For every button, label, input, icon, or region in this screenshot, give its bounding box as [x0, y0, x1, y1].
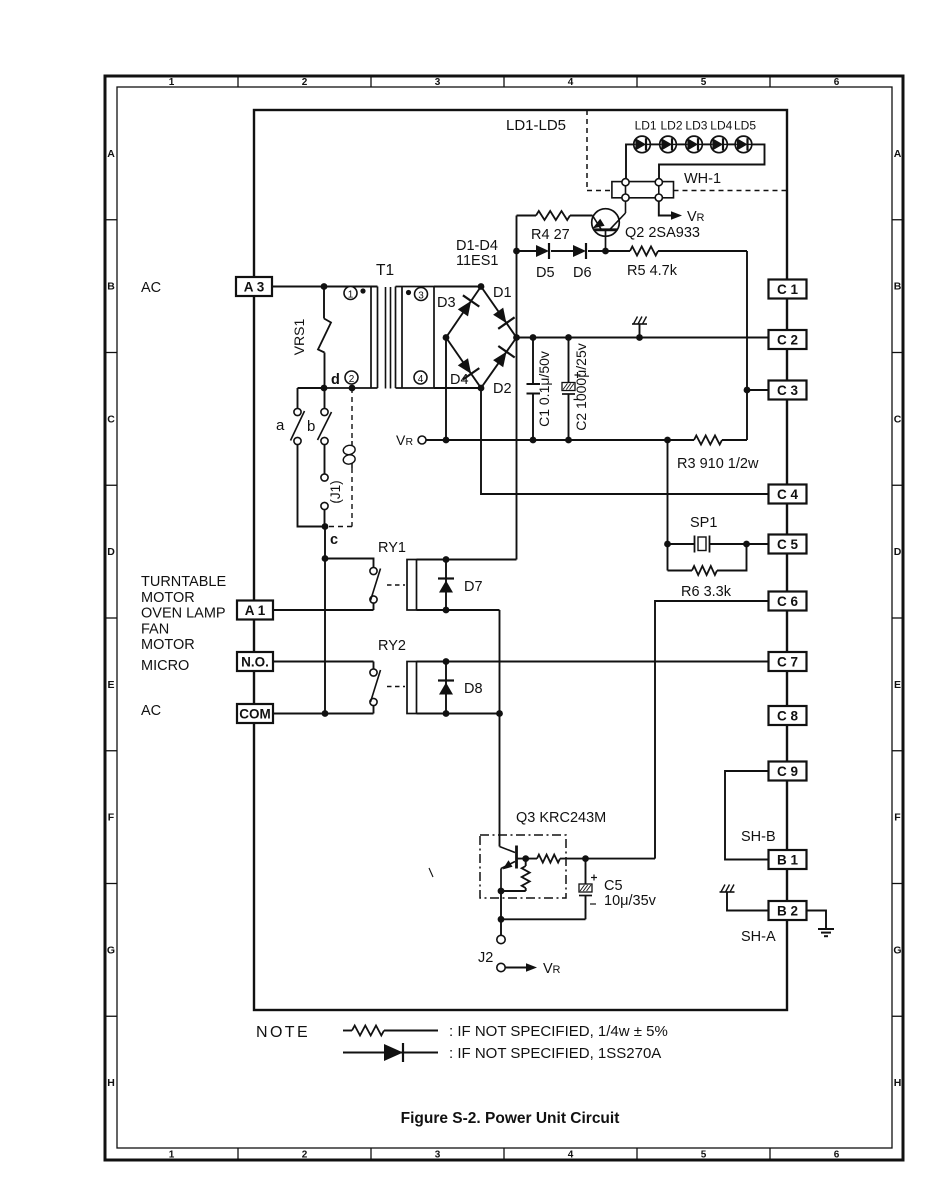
connector WH-1	[612, 179, 674, 202]
svg-text:R: R	[406, 436, 414, 448]
wire SP1 rail	[668, 543, 769, 545]
diode D3	[458, 295, 480, 316]
wire bridge right node up to R4	[516, 216, 518, 338]
wire R5 to C3 vertical	[746, 251, 748, 440]
svg-text:V: V	[687, 209, 697, 225]
node D7 bottom	[443, 607, 450, 614]
svg-text:1: 1	[169, 1150, 175, 1161]
svg-text:D1: D1	[493, 285, 512, 301]
svg-text:OVEN LAMP: OVEN LAMP	[141, 606, 226, 622]
diode D1	[493, 308, 514, 329]
capacitor C2 (electrolytic)	[562, 338, 581, 441]
svg-text:RY2: RY2	[378, 638, 406, 654]
node bridge left	[443, 334, 450, 341]
node C1 top	[530, 334, 537, 341]
svg-text:3: 3	[418, 291, 424, 302]
wire bridge left node down to VR rail	[445, 338, 447, 441]
connector C3	[769, 381, 807, 400]
svg-text:: IF NOT SPECIFIED, 1SS270A: : IF NOT SPECIFIED, 1SS270A	[449, 1045, 661, 1062]
ground (chassis) on DC rail	[632, 317, 647, 338]
node C5 top	[582, 855, 589, 862]
node RY1 branch	[322, 555, 329, 562]
svg-text:V: V	[396, 432, 406, 448]
svg-text:NOTE: NOTE	[256, 1024, 310, 1041]
svg-text:D5: D5	[536, 265, 555, 281]
diode D8	[438, 662, 454, 714]
label D1-D4 11ES1	[456, 238, 498, 269]
wire Q3 base with internal resistor	[518, 855, 656, 863]
stray scan mark	[429, 868, 433, 877]
relay RY1 contact	[370, 567, 405, 603]
node C2 top	[565, 334, 572, 341]
resonator SP1	[695, 536, 710, 553]
wire c down to COM rail	[324, 527, 326, 714]
wire switch a leg to node c	[298, 445, 326, 527]
node D8 bottom	[443, 710, 450, 717]
diode D6	[573, 243, 586, 259]
svg-text:B 2: B 2	[777, 904, 798, 919]
node D7 top	[443, 556, 450, 563]
terminal VR (circle)	[396, 432, 426, 448]
connector B1	[769, 850, 807, 869]
svg-text:C 3: C 3	[777, 383, 799, 398]
node ground stem	[636, 334, 643, 341]
node C1 bottom	[530, 437, 537, 444]
svg-text:SH-B: SH-B	[741, 829, 776, 845]
svg-text:5: 5	[701, 1150, 707, 1161]
svg-text:F: F	[108, 812, 115, 824]
legend diode symbol	[343, 1043, 438, 1062]
svg-text:RY1: RY1	[378, 540, 406, 556]
diode D7	[438, 560, 454, 611]
svg-text:6: 6	[834, 1150, 840, 1161]
svg-text:C 9: C 9	[777, 764, 798, 779]
svg-text:c: c	[330, 532, 338, 548]
connector C5	[769, 535, 807, 554]
wire DC+ rail to C2 connector	[517, 337, 769, 339]
connector B2	[769, 901, 807, 920]
svg-text:C: C	[107, 413, 115, 425]
svg-text:A 3: A 3	[244, 280, 265, 295]
svg-text:2: 2	[349, 374, 355, 385]
svg-text:AC: AC	[141, 703, 161, 719]
wire B2 to earth ground	[807, 911, 827, 930]
connector C2	[769, 330, 807, 349]
svg-text:R5 4.7k: R5 4.7k	[627, 263, 678, 279]
relay RY2 coil	[407, 662, 769, 714]
wire RY1 coil to Q3 collector	[499, 610, 501, 714]
resistor R4	[536, 211, 570, 220]
node Q3 base resistor junction	[522, 855, 529, 862]
switch a	[291, 388, 305, 445]
svg-text:2: 2	[302, 77, 308, 88]
connector A1	[237, 601, 273, 620]
label TURNTABLE MOTOR OVEN LAMP FAN MOTOR	[141, 574, 226, 653]
svg-text:D3: D3	[437, 295, 456, 311]
svg-text:A: A	[894, 148, 902, 160]
svg-text:MOTOR: MOTOR	[141, 590, 195, 606]
svg-text:d: d	[331, 372, 340, 388]
resistor R6 loop	[668, 544, 747, 575]
svg-text:B 1: B 1	[777, 853, 799, 868]
svg-text:TURNTABLE: TURNTABLE	[141, 574, 226, 590]
svg-text:MOTOR: MOTOR	[141, 637, 195, 653]
svg-text:D6: D6	[573, 265, 592, 281]
svg-text:b: b	[307, 418, 315, 435]
svg-text:(J1): (J1)	[328, 480, 343, 503]
wire Q3 collector	[500, 714, 516, 853]
diode D5	[536, 243, 549, 259]
node Q2 lead junction	[602, 248, 609, 255]
LED LD5	[727, 136, 752, 153]
node C3 junction	[744, 387, 751, 394]
wire A3 to T1	[272, 286, 378, 288]
capacitor C1	[527, 338, 541, 441]
svg-text:J2: J2	[478, 950, 493, 966]
T1 pin 4 marker	[414, 371, 427, 385]
svg-text:MICRO: MICRO	[141, 658, 189, 674]
svg-text:R6 3.3k: R6 3.3k	[681, 584, 732, 600]
connector N.O.	[237, 652, 273, 671]
resistor R5	[630, 247, 658, 256]
svg-text:C 5: C 5	[777, 537, 799, 552]
svg-text:E: E	[894, 679, 901, 691]
svg-text:WH-1: WH-1	[684, 171, 721, 187]
wire Q3 emitter rail	[501, 890, 526, 892]
wire C6 to Q3 base	[655, 601, 769, 859]
wire RY1 contact feed	[325, 559, 374, 568]
svg-text:A: A	[107, 148, 115, 160]
svg-text:COM: COM	[239, 707, 271, 722]
wire C5 bottom rail	[501, 918, 586, 920]
svg-text:VRS1: VRS1	[291, 319, 307, 356]
LED LD1	[634, 136, 651, 153]
svg-text:D: D	[894, 546, 902, 558]
transformer T1 core	[386, 287, 391, 389]
wire bridge bottom to C4 rail	[481, 388, 769, 494]
svg-text:B: B	[894, 281, 902, 293]
svg-text:C 6: C 6	[777, 594, 799, 609]
svg-text:D1-D4: D1-D4	[456, 238, 498, 254]
svg-text:FAN: FAN	[141, 621, 169, 637]
svg-text:LD4: LD4	[710, 119, 732, 133]
svg-text:A 1: A 1	[245, 603, 266, 618]
svg-text:LD1-LD5: LD1-LD5	[506, 117, 566, 134]
connector C8	[769, 706, 807, 725]
capacitor C5 (electrolytic)	[579, 859, 597, 920]
relay RY2 contact	[370, 662, 405, 706]
svg-text:G: G	[893, 944, 901, 956]
node J1 dashed tap	[349, 385, 356, 392]
connector C1	[769, 280, 807, 299]
svg-text:SP1: SP1	[690, 515, 717, 531]
node C2 bottom	[565, 437, 572, 444]
svg-text:5: 5	[701, 77, 707, 88]
connector C4	[769, 485, 807, 504]
svg-text:D8: D8	[464, 681, 483, 697]
wire R4 rail	[517, 215, 593, 217]
svg-text:1: 1	[348, 290, 354, 301]
label VR (top)	[687, 209, 705, 225]
wire C9 to B1 (SH-B loop)	[725, 771, 769, 860]
svg-text:: IF NOT SPECIFIED, 1/4w ± 5%: : IF NOT SPECIFIED, 1/4w ± 5%	[449, 1023, 668, 1040]
diode D2	[493, 346, 515, 367]
node COM / c junction	[322, 710, 329, 717]
connector COM	[237, 704, 273, 723]
svg-text:D2: D2	[493, 381, 512, 397]
svg-text:G: G	[107, 944, 115, 956]
svg-text:SH-A: SH-A	[741, 929, 776, 945]
svg-text:LD5: LD5	[734, 119, 756, 133]
transistor Q2 (2SA933 PNP)	[592, 201, 626, 251]
ground (earth) right of B2	[818, 928, 834, 930]
wire N.O. rail	[273, 661, 374, 663]
resistor R3	[694, 436, 722, 445]
relay RY1 coil	[407, 560, 517, 611]
svg-text:AC: AC	[141, 280, 161, 296]
wire RY1 contact to A1 rail	[373, 603, 375, 610]
inductor J1 coil	[342, 441, 356, 468]
svg-text:3: 3	[435, 1150, 441, 1161]
svg-text:D4: D4	[450, 372, 469, 388]
svg-text:N.O.: N.O.	[241, 655, 269, 670]
svg-text:H: H	[107, 1077, 115, 1089]
svg-text:6: 6	[834, 77, 840, 88]
wire R3 branch down to SP1/R6	[667, 440, 669, 571]
wire T1 bottom rail to switches	[298, 387, 325, 389]
node VR rail / bridge left	[443, 437, 450, 444]
node SP1 left	[664, 541, 671, 548]
node c junction	[322, 523, 329, 530]
arrow J2 to VR	[506, 963, 538, 972]
node VRS1 top junction	[321, 283, 328, 290]
svg-text:C 1: C 1	[777, 282, 799, 297]
svg-text:C1 0.1μ/50v: C1 0.1μ/50v	[536, 351, 552, 427]
svg-text:10μ/35v: 10μ/35v	[604, 893, 657, 909]
svg-text:H: H	[894, 1077, 902, 1089]
svg-text:4: 4	[568, 1150, 574, 1161]
transformer T1 primary winding	[324, 287, 378, 389]
node R4/D5 junction	[513, 248, 520, 255]
svg-text:T1: T1	[376, 262, 394, 279]
svg-text:3: 3	[435, 77, 441, 88]
svg-text:C 2: C 2	[777, 333, 798, 348]
T1 pin 1 marker	[344, 287, 366, 301]
bridge diamond wires	[446, 287, 517, 389]
svg-text:1: 1	[169, 77, 175, 88]
diode D4	[458, 358, 480, 379]
wire DC+ to RY1 coil	[516, 338, 518, 560]
wire WH-1 to VR arrow	[659, 201, 682, 220]
node C5 bottom rail junction	[498, 916, 505, 923]
svg-text:F: F	[894, 812, 901, 824]
wire A1 rail	[273, 609, 374, 611]
svg-text:11ES1: 11ES1	[456, 253, 498, 269]
svg-text:C: C	[894, 413, 902, 425]
connector A3	[236, 277, 272, 296]
transformer T1 secondary winding	[396, 287, 435, 389]
svg-text:C2 1000μ/25v: C2 1000μ/25v	[573, 343, 589, 430]
wire Q3 emitter down to J2	[500, 891, 502, 935]
wire LED row right leg	[659, 144, 765, 182]
LED LD2	[650, 136, 676, 153]
connector J1 (plug gap)	[321, 445, 328, 527]
svg-text:4: 4	[418, 374, 424, 385]
svg-text:V: V	[543, 961, 553, 977]
varistor VRS1	[318, 287, 331, 389]
svg-text:D7: D7	[464, 579, 483, 595]
legend resistor symbol	[343, 1026, 438, 1036]
wire T1 to bridge top	[434, 286, 481, 288]
ground (chassis) at B2	[720, 885, 769, 911]
svg-text:a: a	[276, 417, 285, 434]
connector C6	[769, 592, 807, 611]
drawing sheet border frame (decorative)	[105, 76, 903, 1161]
dash-dot package outline Q3	[480, 835, 566, 898]
node R3 branch	[664, 437, 671, 444]
main circuit boundary box	[254, 110, 787, 1010]
svg-text:B: B	[107, 281, 115, 293]
wire COM rail	[273, 713, 374, 715]
svg-text:Figure S-2. Power Unit Circuit: Figure S-2. Power Unit Circuit	[401, 1110, 620, 1127]
transistor Q3 (NPN)	[501, 846, 517, 892]
connector C9	[769, 762, 807, 781]
svg-text:E: E	[107, 679, 114, 691]
svg-text:R3 910 1/2w: R3 910 1/2w	[677, 456, 759, 472]
node bridge bottom	[478, 385, 485, 392]
connector J2 (plug)	[497, 935, 505, 971]
svg-text:Q3 KRC243M: Q3 KRC243M	[516, 810, 606, 826]
svg-text:2: 2	[302, 1150, 308, 1161]
node bridge right	[513, 334, 520, 341]
wire T1 to bridge bottom	[434, 387, 481, 389]
label VR (bottom)	[543, 961, 561, 977]
node D8 top	[443, 658, 450, 665]
svg-text:R: R	[553, 964, 561, 976]
wire LED row left leg	[626, 144, 634, 182]
wire VR rail	[426, 439, 747, 441]
svg-text:LD3: LD3	[685, 119, 707, 133]
svg-text:D: D	[107, 546, 115, 558]
LED LD4	[702, 136, 727, 153]
switch b	[318, 388, 332, 445]
wire C3 rail	[747, 389, 769, 391]
T1 pin 3 marker	[406, 288, 428, 302]
node RY2 coil / Q3 collector junction	[496, 710, 503, 717]
svg-text:LD1: LD1	[635, 119, 657, 133]
svg-text:4: 4	[568, 77, 574, 88]
svg-text:C 7: C 7	[777, 655, 798, 670]
svg-text:R4 27: R4 27	[531, 227, 570, 243]
connector C7	[769, 652, 807, 671]
dashed boundary of display sub-unit	[587, 110, 786, 191]
wire RY2 contact to COM rail	[373, 706, 375, 714]
wire D5-D6 rail	[517, 250, 748, 252]
svg-text:C5: C5	[604, 878, 623, 894]
node bridge top	[478, 283, 485, 290]
node d junction	[321, 385, 328, 392]
relay coil link dashed from J1 tap	[329, 388, 352, 527]
node Q3 emitter junction	[498, 888, 505, 895]
svg-text:C 8: C 8	[777, 709, 799, 724]
T1 pin 2 marker	[345, 371, 358, 385]
svg-text:C 4: C 4	[777, 487, 799, 502]
node SP1 right	[743, 541, 750, 548]
svg-text:LD2: LD2	[661, 119, 683, 133]
internal resistor Q3 base-emitter	[522, 859, 530, 891]
svg-text:Q2 2SA933: Q2 2SA933	[625, 225, 700, 241]
svg-text:R: R	[697, 212, 705, 224]
LED LD3	[676, 136, 702, 153]
